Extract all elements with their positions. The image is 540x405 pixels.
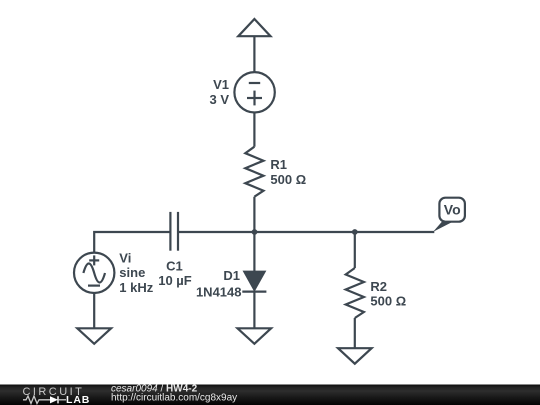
svg-text:10 µF: 10 µF xyxy=(158,273,192,288)
label C1 value 10 uF xyxy=(158,258,192,288)
ground under Vi xyxy=(77,328,111,344)
footer url xyxy=(111,392,237,403)
resistor R2 xyxy=(346,268,364,318)
ground under D1 xyxy=(238,328,272,344)
footer credit line author / title xyxy=(111,383,198,394)
svg-text:500 Ω: 500 Ω xyxy=(370,293,406,308)
svg-text:Vi: Vi xyxy=(119,250,131,265)
wire node to R2 top xyxy=(354,232,356,268)
ground under R2 xyxy=(338,348,372,364)
CircuitLab logo resistor squiggle xyxy=(23,396,50,404)
svg-text:D1: D1 xyxy=(223,268,240,283)
wire R1 bottom to node xyxy=(253,197,255,232)
label Vi sine 1 kHz xyxy=(119,250,153,295)
junction node at D1 column xyxy=(252,229,258,235)
wire D1 cathode to ground xyxy=(253,292,255,329)
junction node at R2 column xyxy=(352,229,358,235)
svg-text:http://circuitlab.com/cg8x9ay: http://circuitlab.com/cg8x9ay xyxy=(111,392,237,403)
label D1 value 1N4148 xyxy=(196,268,242,300)
wire node to D1 anode xyxy=(253,232,255,272)
svg-text:R2: R2 xyxy=(370,279,387,294)
svg-text:V1: V1 xyxy=(213,77,229,92)
wire Vi bottom to ground xyxy=(93,293,95,328)
CircuitLab logo CIRCUIT text xyxy=(23,386,85,398)
svg-text:1N4148: 1N4148 xyxy=(196,285,242,300)
diode D1 xyxy=(242,271,266,291)
svg-text:sine: sine xyxy=(119,265,145,280)
node flag tail for Vo xyxy=(433,222,453,232)
wire V1 bottom to R1 xyxy=(253,113,255,147)
CircuitLab logo LAB text xyxy=(66,394,90,405)
svg-text:C1: C1 xyxy=(166,258,183,273)
voltage source V1 xyxy=(234,72,274,112)
CircuitLab logo diode symbol xyxy=(50,396,66,403)
label V1 value 3 V xyxy=(209,77,229,107)
capacitor C1 xyxy=(170,212,178,251)
node label Vo xyxy=(439,198,465,222)
wire C1 right to Vo (main horizontal net) xyxy=(178,231,434,233)
wire Vi top up to horizontal net xyxy=(94,232,170,253)
label R2 value 500 ohm xyxy=(370,279,406,308)
svg-text:R1: R1 xyxy=(270,157,287,172)
voltage source Vi (sine) xyxy=(74,253,114,293)
wire R2 bottom to ground xyxy=(354,318,356,348)
svg-text:3 V: 3 V xyxy=(209,92,229,107)
svg-text:500 Ω: 500 Ω xyxy=(270,172,306,187)
svg-text:LAB: LAB xyxy=(66,394,90,405)
svg-text:Vo: Vo xyxy=(444,202,461,218)
label R1 value 500 ohm xyxy=(270,157,306,187)
svg-text:1 kHz: 1 kHz xyxy=(119,280,153,295)
wire power to V1 top xyxy=(253,36,255,72)
power supply symbol VDD (up triangle) xyxy=(238,19,270,36)
resistor R1 xyxy=(245,147,263,197)
footer bar xyxy=(0,385,540,405)
